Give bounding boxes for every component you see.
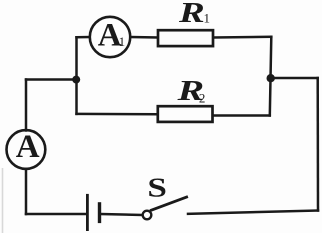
svg-text:1: 1 [119,34,126,49]
svg-text:A: A [16,129,40,165]
svg-text:R: R [178,0,205,29]
svg-text:S: S [147,172,167,202]
svg-text:1: 1 [204,10,211,25]
svg-text:2: 2 [199,90,206,105]
